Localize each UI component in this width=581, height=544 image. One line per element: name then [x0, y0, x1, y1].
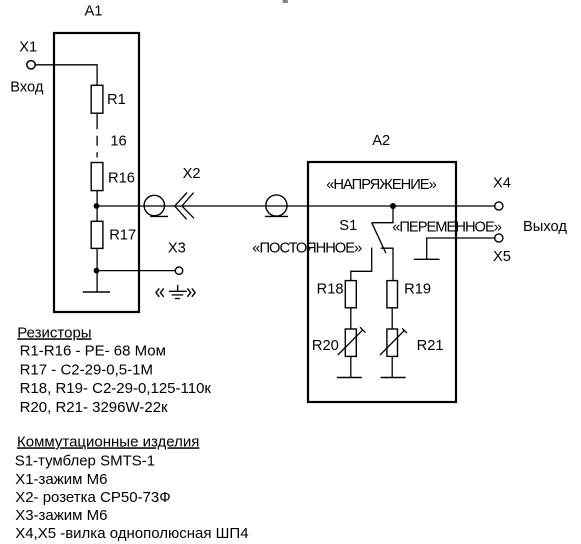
connector X2 socket tail	[265, 215, 288, 217]
svg-text:Вход: Вход	[10, 80, 44, 96]
wire X1 to R1	[35, 65, 97, 86]
svg-text:Выход: Выход	[523, 219, 567, 235]
connector X2 plug circle	[144, 195, 164, 215]
wire dashed R1 to R16	[96, 113, 98, 157]
svg-text:R17: R17	[109, 228, 136, 244]
svg-text:R1: R1	[107, 92, 126, 108]
ground chassis R20	[337, 377, 362, 379]
ground chassis A1	[83, 291, 110, 293]
ground chassis X5	[414, 258, 440, 260]
resistor R19	[387, 281, 398, 308]
svg-text:X4,X5 -вилка однополюсная ШП4: X4,X5 -вилка однополюсная ШП4	[15, 525, 248, 542]
connector X2 chevron inner	[182, 193, 194, 219]
svg-text:A1: A1	[85, 3, 103, 19]
connector X2 plug tail	[150, 215, 168, 217]
svg-text:16: 16	[110, 134, 126, 150]
terminal X5	[495, 234, 503, 242]
terminal X1	[27, 61, 35, 69]
node main junction A2	[390, 203, 396, 209]
connector X2 chevron outer	[175, 193, 187, 220]
svg-text:R18, R19- С2-29-0,125-110к: R18, R19- С2-29-0,125-110к	[20, 380, 212, 397]
wire R21 to ground	[391, 356, 393, 377]
wire S1 right contact to R19	[381, 248, 393, 280]
svg-text:«НАПРЯЖЕНИЕ»: «НАПРЯЖЕНИЕ»	[326, 177, 436, 193]
wire R19 to R21	[391, 308, 393, 329]
svg-text:X2- розетка СР50-73Ф: X2- розетка СР50-73Ф	[15, 489, 170, 506]
svg-text:X1-зажим М6: X1-зажим М6	[15, 471, 107, 488]
svg-text:R20: R20	[312, 338, 339, 354]
svg-text:R19: R19	[404, 282, 431, 298]
wire R17 to ground	[96, 248, 98, 292]
svg-text:Коммутационные изделия: Коммутационные изделия	[17, 433, 199, 450]
node junction A1 divider	[94, 203, 100, 209]
resistor R16	[91, 163, 103, 191]
svg-text:R1-R16 - РЕ- 68 Мом: R1-R16 - РЕ- 68 Мом	[20, 342, 166, 359]
svg-text:X5: X5	[493, 249, 511, 265]
switch S1 pole	[372, 206, 393, 223]
ground chassis R21	[381, 377, 406, 379]
svg-text:A2: A2	[372, 133, 390, 149]
block A1	[54, 33, 139, 312]
wire R20 to ground	[350, 356, 352, 377]
wire S1 left contact to R18	[351, 248, 372, 281]
connector X2 socket circle	[266, 195, 287, 216]
resistor R1	[91, 85, 103, 113]
svg-text:Резисторы: Резисторы	[17, 324, 91, 341]
resistor R18	[345, 281, 356, 308]
terminal X3	[175, 267, 182, 274]
switch S1 blade	[372, 223, 386, 254]
wire R16 to R17	[96, 191, 98, 222]
node junction X3 tap	[94, 268, 100, 274]
trimmer R21	[380, 328, 407, 356]
svg-text:R21: R21	[417, 338, 444, 354]
svg-text:X1: X1	[19, 39, 37, 55]
main wire X2 line	[97, 205, 496, 207]
svg-text:R18: R18	[317, 282, 344, 298]
svg-text:S1: S1	[339, 218, 357, 234]
terminal X4	[495, 202, 503, 210]
trimmer R20	[338, 327, 366, 356]
wire to X3	[97, 270, 176, 272]
svg-text:«ПЕРЕМЕННОЕ»: «ПЕРЕМЕННОЕ»	[392, 219, 502, 235]
block A2	[308, 162, 456, 402]
svg-text:S1-тумблер SMTS-1: S1-тумблер SMTS-1	[15, 452, 155, 469]
resistor R17	[91, 221, 103, 248]
svg-text:X3-зажим М6: X3-зажим М6	[15, 507, 107, 524]
svg-text:X3: X3	[168, 241, 186, 257]
wire R18 to R20	[350, 308, 352, 329]
top edge artifact mark	[283, 0, 288, 3]
earth ground symbol X3	[169, 285, 187, 299]
svg-text:R20, R21- 3296W-22к: R20, R21- 3296W-22к	[20, 399, 168, 416]
svg-text:«ПОСТОЯННОЕ»: «ПОСТОЯННОЕ»	[252, 241, 362, 257]
svg-text:X2: X2	[183, 166, 201, 182]
label ground quote left	[156, 288, 164, 296]
svg-text:R17 - С2-29-0,5-1М: R17 - С2-29-0,5-1М	[20, 361, 153, 378]
svg-text:R16: R16	[108, 171, 135, 187]
wire X5 to chassis	[427, 238, 495, 259]
label ground quote right	[187, 288, 195, 296]
svg-text:X4: X4	[493, 176, 511, 192]
